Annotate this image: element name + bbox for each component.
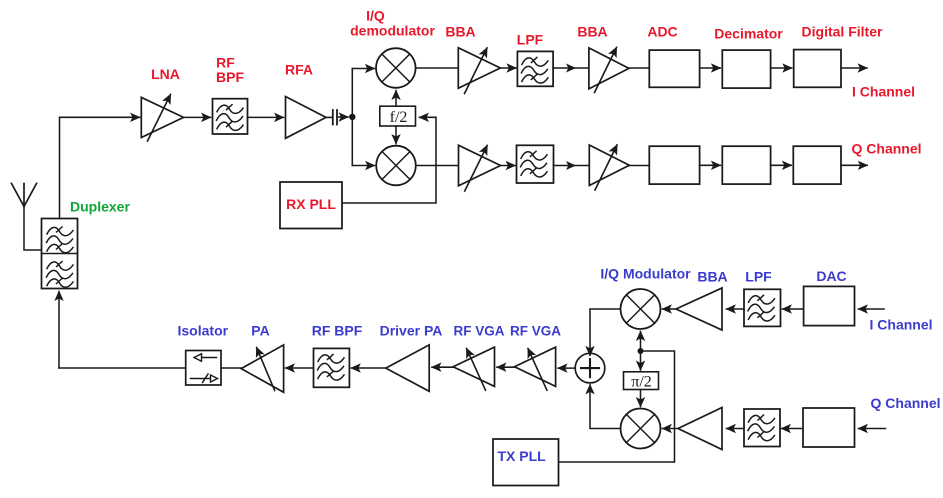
wire I channel input [859,308,885,310]
RF BPF filter TX [314,348,350,387]
LPF filter I [517,51,553,86]
svg-text:PA: PA [251,323,269,339]
wire BBA to ADC Q [629,165,649,167]
TX PLL [493,439,559,486]
mixer I (TX) [621,289,661,329]
wire mixer I to BBA [416,67,458,69]
LPF filter TX I [744,289,781,326]
BBA amplifier I2 [589,48,629,93]
svg-text:I Channel: I Channel [852,84,915,100]
BBA amplifier TX I [676,288,722,330]
wire RF BPF to PA [286,367,314,369]
Digital Filter Q [793,146,841,184]
divide-by-two f/2 [380,106,416,126]
wire f/2 to mixer Q LO [395,126,397,144]
svg-text:LNA: LNA [151,66,180,82]
wire isolator to duplexer horizontal [59,367,186,369]
svg-text:RX PLL: RX PLL [286,196,336,212]
duplexer RX filter waves [47,227,74,253]
wire Driver PA to RF BPF TX [351,367,385,369]
wire BBA to mixer I TX [663,308,677,310]
duplexer [42,219,78,289]
wire mixer Q to BBA [416,165,459,167]
BBA amplifier Q1 [459,145,501,191]
svg-text:π/2: π/2 [631,373,652,390]
svg-text:BPF: BPF [216,69,244,85]
summer sigma [575,353,605,383]
wire up into duplexer TX port [58,292,60,369]
svg-text:RFA: RFA [285,62,313,78]
wire BBA to LPF I [500,67,516,69]
PA amplifier [241,345,283,392]
svg-text:f/2: f/2 [390,109,408,126]
svg-text:RF VGA: RF VGA [453,324,504,339]
svg-text:Digital Filter: Digital Filter [802,24,883,40]
svg-text:LPF: LPF [745,269,772,285]
wire to mixer Q [352,165,374,167]
BBA amplifier TX Q [678,408,722,450]
RF VGA1 amplifier [453,347,494,390]
wire Decimator to Digital Filter I [771,67,792,69]
wire Q channel output [841,164,867,166]
Decimator Q [722,146,770,184]
wire LNA to RF BPF [184,116,211,118]
Driver PA amplifier [386,345,429,391]
wire LPF to BBA TX Q [727,428,745,430]
wire RF VGA2 to RF VGA1 [497,366,515,368]
RF BPF filter [213,99,248,134]
svg-text:Duplexer: Duplexer [70,199,130,215]
wire I channel output [841,67,867,69]
RX PLL [280,182,342,229]
wire LPF to BBA TX I [727,308,745,310]
wire Q channel input [859,428,886,430]
mixer Q (RX) [376,146,416,186]
duplexer RX/TX divider [42,253,78,255]
svg-text:Decimator: Decimator [714,26,783,42]
svg-text:demodulator: demodulator [350,23,435,39]
wire BBA to ADC I [629,67,649,69]
wire PA to isolator [221,367,241,369]
wire ADC to Decimator I [700,67,721,69]
DAC I [804,286,855,325]
svg-text:Q Channel: Q Channel [871,395,941,411]
svg-text:Driver PA: Driver PA [380,323,443,339]
wire duplexer to LNA [60,117,140,218]
DAC Q [803,408,855,447]
wire LPF to BBA Q2 [554,165,590,167]
wire to mixer I [352,68,374,70]
wire DAC to LPF TX Q [782,428,804,430]
wire Decimator to Digital Filter Q [771,164,792,166]
svg-text:DAC: DAC [816,268,846,284]
svg-text:TX PLL: TX PLL [498,448,547,464]
wire f/2 to mixer I LO [395,91,397,107]
svg-text:ADC: ADC [647,24,677,40]
antenna [12,184,37,207]
arrowhead on wire LPF-BBA Q [566,161,576,170]
BBA amplifier Q2 [589,145,629,190]
svg-text:LPF: LPF [517,32,544,48]
wire TX PLL to LO junction [559,351,675,462]
mixer I (RX) [376,48,416,88]
wire summer to RF VGA2 [558,367,575,369]
RFA amplifier [286,97,327,139]
wire RX PLL to f/2 [342,117,436,203]
wire mixer I TX to summer [590,309,621,355]
wire BBA to mixer Q TX [663,428,679,430]
wire node vertical split [351,69,353,166]
duplexer TX filter waves [47,262,74,288]
ADC I [649,50,699,87]
svg-text:Q Channel: Q Channel [852,141,922,157]
isolator [186,351,221,386]
svg-text:I/Q: I/Q [366,8,385,24]
wire RF BPF to RFA [248,116,284,118]
svg-text:RF VGA: RF VGA [510,324,561,339]
LPF filter Q [517,145,554,183]
svg-text:BBA: BBA [445,24,475,40]
RF VGA2 amplifier [515,347,556,390]
svg-text:I Channel: I Channel [870,317,933,333]
svg-text:Isolator: Isolator [178,323,229,339]
svg-text:BBA: BBA [577,24,607,40]
wire BBA to LPF Q [501,165,516,167]
Decimator I [722,50,770,88]
wire pi/2 to mixer Q TX [640,390,642,407]
svg-text:BBA: BBA [697,269,727,285]
mixer Q (TX) [621,409,661,449]
wire LPF to BBA I2 [553,67,589,69]
wire LO to mixer I TX [640,332,642,352]
ADC Q [649,146,699,184]
LPF filter TX Q [744,409,780,447]
wire RF VGA1 to Driver PA [432,366,453,368]
wire capacitor to node [339,116,349,118]
svg-text:RF BPF: RF BPF [312,323,363,339]
coupling capacitor after RFA [326,110,337,125]
wire mixer Q TX to summer [590,385,621,429]
wire DAC to LPF TX I [783,308,804,310]
phase shifter pi/2 [624,372,659,390]
svg-text:I/Q Modulator: I/Q Modulator [600,266,691,282]
BBA amplifier I1 [458,48,500,94]
LO junction dot [638,348,644,354]
wire ADC to Decimator Q [700,164,721,166]
arrowhead on wire LPF-BBA I [566,64,576,73]
node junction dot [349,114,355,120]
wire LO to pi/2 [640,351,642,370]
wire antenna to duplexer [24,207,42,251]
LNA amplifier [141,95,183,142]
Digital Filter I [794,50,841,88]
